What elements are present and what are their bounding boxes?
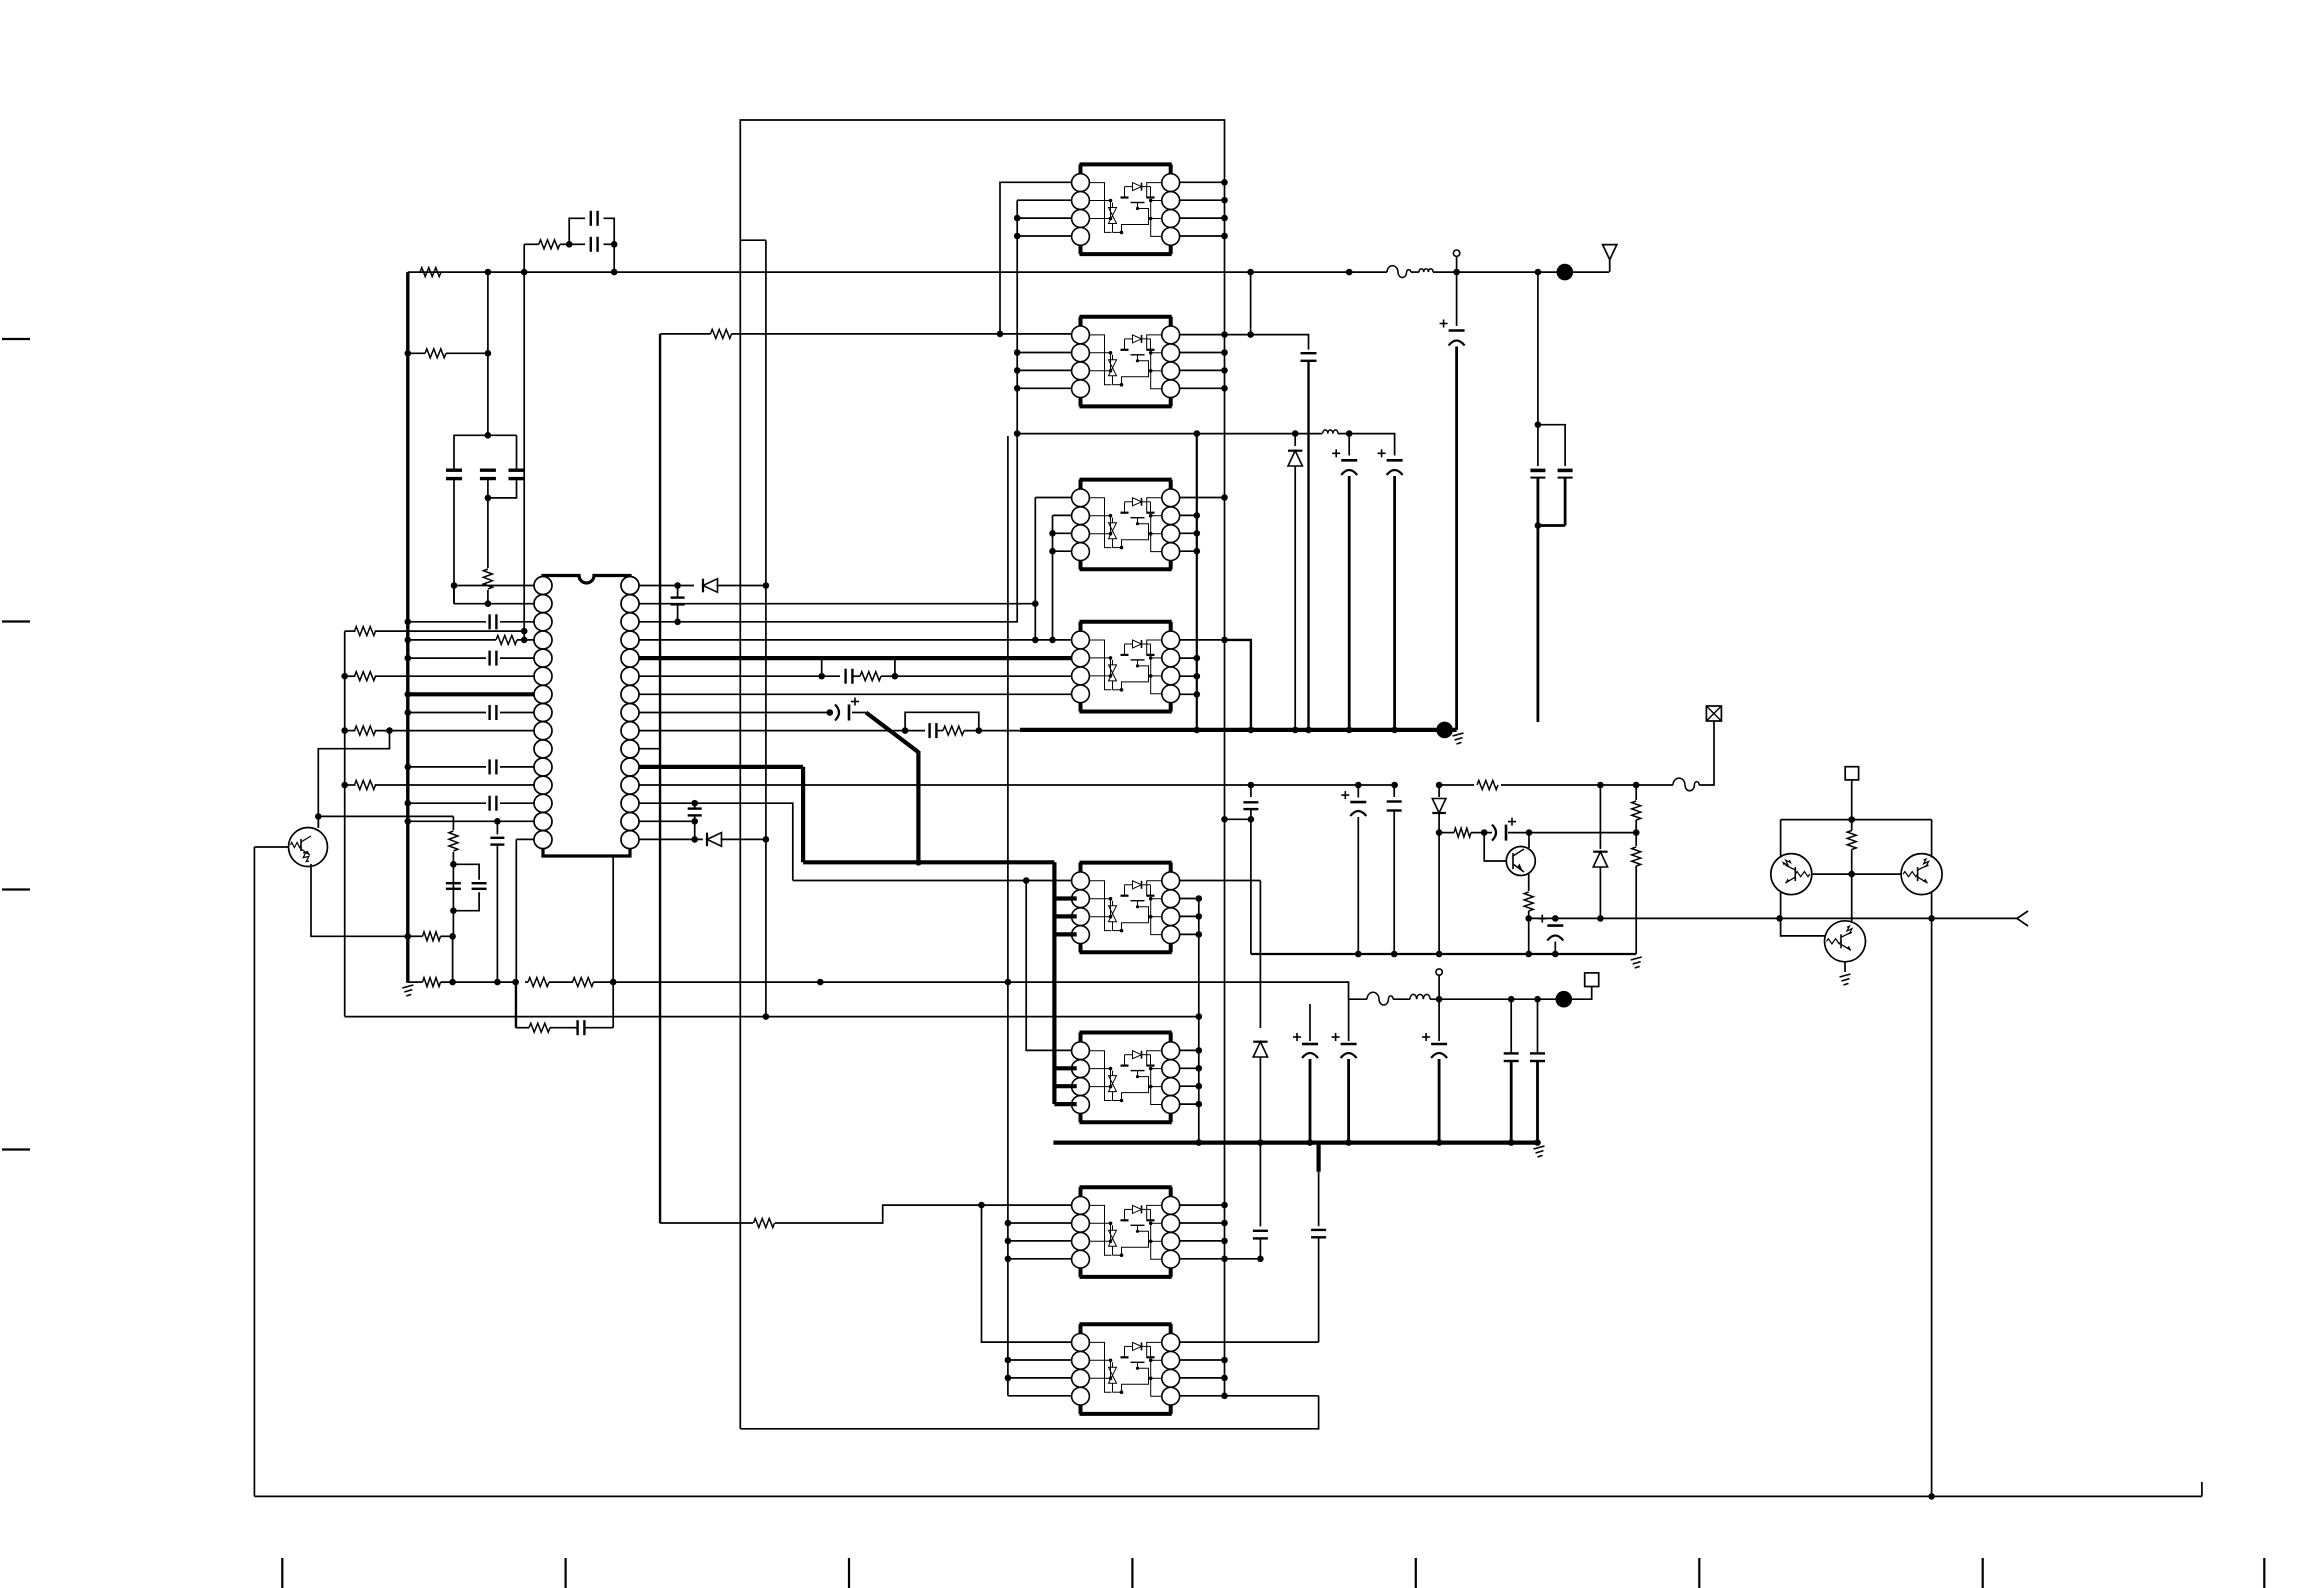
wire: branch x=389.5 to transistor collector row <box>318 731 389 828</box>
wire: Q4 collector stub <box>1851 874 1853 921</box>
bottom edge registration tick 4 <box>1131 1558 1133 1588</box>
wire: branch from C32 to frame edge <box>1225 818 1251 820</box>
wire: link to PC8 input row1 <box>982 1205 1072 1342</box>
photoMOS relay PC5 body <box>1080 861 1172 865</box>
transistor Q1 (digital, with built-in resistors) <box>289 828 328 867</box>
row y=936 with resistor R10 <box>405 933 412 940</box>
transistor Q4 (digital) <box>1825 921 1866 962</box>
IC pin L3 wire with capacitor C6 <box>408 621 486 623</box>
PC5 internal input wiring <box>1089 881 1111 931</box>
wire: Q5 collector <box>1528 833 1530 848</box>
left edge registration tick 2 <box>2 620 30 622</box>
PC7 internal input wiring <box>1089 1205 1111 1255</box>
node dot x=1000 on 334 row <box>997 331 1004 338</box>
bottom edge registration tick 8 <box>2263 1558 2265 1588</box>
IC pin L2 wire <box>454 603 534 605</box>
PC4 internal input wiring <box>1089 640 1111 690</box>
left edge registration tick 4 <box>2 1148 30 1150</box>
wire: y=334 row to PC2 input <box>660 333 710 335</box>
terminal T2 on 999 rail <box>1436 969 1442 975</box>
PC5 internal MOSFET <box>1121 895 1129 897</box>
bold vertical x=1054 feeding PC5/PC6 <box>1052 862 1056 1104</box>
long mid-left horizontal y=1016.6 <box>345 1016 1199 1018</box>
capacitor C2 parallel branch <box>569 218 585 244</box>
vertical x=1198.8 to mid ground bus <box>1198 899 1200 1143</box>
left edge registration tick 1 <box>2 338 30 340</box>
resistor R4 above IC pin 2 <box>483 569 492 589</box>
bias row y=982 with resistor R11 <box>408 981 423 983</box>
PC1 pin circles <box>1072 174 1090 192</box>
IC pin L6 wire with resistor R6 <box>345 675 356 677</box>
inductor L3 on R12 net <box>1673 778 1699 791</box>
PC5 internal output diode <box>1133 881 1142 889</box>
arrowhead of output line <box>2017 911 2028 926</box>
PC8 internal output diode <box>1133 1342 1142 1350</box>
PC4 outputs <box>1180 639 1225 641</box>
wire: collector row to resistor chain <box>318 815 453 817</box>
PC3 pin circles <box>1072 489 1090 507</box>
bottom edge registration tick 1 <box>281 1558 283 1588</box>
IC pin L5 wire with capacitor C7 <box>408 657 486 659</box>
PC1 internal output diode <box>1133 183 1142 191</box>
photoMOS relay PC1 body <box>1080 162 1172 166</box>
photoMOS relay PC6 body <box>1080 1031 1172 1035</box>
electrolytic C23 horizontal <box>1484 832 1492 834</box>
wire: Q1 collector riser <box>317 816 319 828</box>
vertical wire x=524 down to row 631 <box>523 272 525 640</box>
PC6 internal output wiring <box>1147 1051 1162 1066</box>
PC8 output row4 to frame <box>1180 1395 1319 1397</box>
solder point on ground bus <box>1436 722 1453 739</box>
PC3 outputs <box>1180 497 1225 499</box>
PC6 internal output diode <box>1133 1051 1142 1059</box>
bold diagonal link <box>866 713 918 753</box>
RC parallel network below row 982 <box>515 982 517 1028</box>
wire: Q2 collector stub <box>1780 820 1782 858</box>
IC U1 pin circles <box>534 577 552 595</box>
photoMOS relay PC7 body <box>1080 1185 1172 1189</box>
PC3 internal output diode <box>1133 498 1142 506</box>
diode D3 to ground bus <box>1294 434 1296 446</box>
PC2 internal MOSFET <box>1121 349 1129 351</box>
connector J3 (square) top right <box>1845 767 1858 780</box>
electrolytic C33 x=1358 from R12 net <box>1357 785 1359 798</box>
wire: Q1 emitter down <box>311 864 408 936</box>
IC pin L8 wire with capacitor C8 <box>408 712 486 714</box>
PC7 internal zener <box>1109 1230 1117 1238</box>
IC pin R10 stub <box>639 748 660 750</box>
bold horizontal y=862.3 <box>803 860 1054 864</box>
wire: Q4 emitter with ground <box>1844 962 1846 972</box>
wire: L15 branch down <box>515 839 517 1027</box>
PC1 internal MOSFET <box>1121 196 1129 198</box>
IC pin R15 wire with diode D2 <box>639 838 703 840</box>
capacitor C15 under R13 <box>694 803 696 808</box>
bottom edge registration tick 3 <box>848 1558 850 1588</box>
PC3 input row1 wire <box>1035 497 1071 499</box>
electrolytic C17 <box>1348 434 1350 456</box>
photoMOS relay PC2 body <box>1080 315 1172 319</box>
IC U1 body <box>543 576 630 857</box>
PC1 internal zener <box>1109 208 1117 216</box>
resistor R19 below J3 <box>1847 831 1856 850</box>
IC pin R12 wire to motor connector <box>639 784 1395 786</box>
chain to PC8 input: bold stub, capacitor C31 <box>1316 1143 1320 1172</box>
IC pin R11 wire (bold) <box>639 765 803 769</box>
wire: PC4 row1 output to ground bus <box>1225 640 1251 730</box>
wire: Q1 base loop long vertical x=254 <box>253 847 255 1496</box>
bold vertical x=803 <box>801 767 805 862</box>
IC pin L13 wire with capacitor C10 <box>408 802 486 804</box>
vertical x=1250.6 from 272 net to PC2 output row <box>1250 272 1252 335</box>
solder point on 272 net <box>1557 264 1574 281</box>
photoMOS relay PC4 body <box>1080 620 1172 624</box>
top rail of trio <box>1781 819 1932 821</box>
IC pin R9 wire with RC pair to ground bus <box>639 730 925 732</box>
PC7 internal output diode <box>1133 1205 1142 1213</box>
PC8 internal input wiring <box>1089 1342 1111 1392</box>
left bias bus x=407.7 (thick) <box>406 272 409 983</box>
capacitor C21 parallel <box>1538 425 1565 466</box>
wire: C3 bottom down to IC pin L1 region <box>453 479 455 604</box>
IC pin L12 wire with resistor R8 <box>345 784 356 786</box>
IC pin L11 wire with capacitor C9 <box>408 766 486 768</box>
IC pin R6 wire with RC pair <box>639 675 840 677</box>
PC2 outputs to box edge <box>1180 352 1225 354</box>
PC2 pin circles <box>1072 326 1090 344</box>
motor supply rail y=999 with inductors <box>1349 998 1368 1000</box>
mid rail of trio <box>1813 873 1902 875</box>
bottom return wire y=1496 <box>254 1495 2201 1497</box>
diode D4 under R12 net <box>1438 785 1440 797</box>
electrolytic C28 on mid bus <box>1422 1036 1430 1038</box>
IC pin R7 wire to PC4 <box>639 693 1072 695</box>
right end upturn <box>2201 1482 2203 1496</box>
wire: PC5/PC6 input link x=1026 <box>1026 881 1071 1051</box>
resistor R1 on 272 net <box>420 268 441 277</box>
PC7 internal MOSFET <box>1121 1219 1129 1221</box>
RC network above 272 net: riser <box>523 244 525 272</box>
transistor Q3 (digital) <box>1901 854 1942 895</box>
PC5 internal output wiring <box>1147 881 1162 896</box>
ground at mid bus end <box>1534 1146 1545 1157</box>
IC pin R2 wire to PC3 riser <box>639 603 1035 605</box>
IC pin L15 wire <box>516 838 534 840</box>
IC pin L9 wire with resistor R7 <box>345 730 356 732</box>
bottom edge registration tick 2 <box>564 1558 566 1588</box>
PC4 internal output diode <box>1133 640 1142 648</box>
frame wire: main box around driver blocks <box>740 120 1224 1429</box>
vertical x=1197 supply to ground bus <box>1196 434 1198 730</box>
PC8 internal MOSFET <box>1121 1356 1129 1358</box>
capacitor C29 on mid bus <box>1510 1049 1512 1054</box>
bus x=1017 for PC1/PC2 inputs <box>1017 199 1071 201</box>
PC3 internal MOSFET <box>1121 512 1129 514</box>
capacitor C25 under bus <box>1259 1143 1261 1227</box>
resistor R16 to transistor Q5 base node <box>1439 832 1454 834</box>
verticals from 999 area down (electrolytics feed) <box>1309 1004 1311 1041</box>
mid ground bus y=1142.6 (bold) <box>1053 1140 1537 1144</box>
output line y=918 to servo connector <box>1529 917 2017 919</box>
PC5 outputs <box>1180 880 1261 882</box>
vertical wire x=488 from 272 net down to IC pin L2 <box>487 272 489 435</box>
PC6 pin circles <box>1072 1042 1090 1060</box>
resistor R14 on R12 net <box>1477 781 1498 790</box>
capacitor C30 on mid bus <box>1537 1049 1539 1054</box>
PC4 internal zener <box>1109 665 1117 673</box>
PC4 internal MOSFET <box>1121 654 1129 656</box>
PC8 outputs <box>1180 1359 1225 1361</box>
wire: Q1 base to left loop <box>254 846 288 848</box>
inductor L2 on 272 net <box>1411 271 1419 273</box>
IC pin R8 wire with electrolytic C14 and bold link <box>639 712 829 714</box>
PC3 input bus x=1052.5 <box>1052 515 1054 640</box>
left vertical ladder wire x=344.7 <box>344 631 346 1017</box>
resistor R15 on 334 row <box>711 329 732 338</box>
capacitor C13 between R1 and R3 rows <box>677 586 679 598</box>
PC5 internal zener <box>1109 906 1117 914</box>
vertical x=1538 with capacitor pair <box>1537 272 1539 466</box>
electrolytic C19 below 272 net <box>1456 272 1458 326</box>
electrolytic C27 on mid bus <box>1332 1036 1340 1038</box>
long input line to PC7 with resistor R18 <box>659 334 661 1223</box>
transistor Q5 <box>1506 847 1535 876</box>
ground bus y=729.5 (bold) <box>1020 728 1457 732</box>
left edge registration tick 3 <box>2 888 30 890</box>
photoMOS relay PC8 body <box>1080 1322 1172 1326</box>
resistor R9 vertical <box>449 831 458 851</box>
PC5 pin circles <box>1072 872 1090 890</box>
bottom edge registration tick 7 <box>1982 1558 1984 1588</box>
capacitor C3 (cluster left) <box>454 435 517 470</box>
PC2 internal input wiring <box>1089 335 1111 385</box>
PC3 internal output wiring <box>1147 498 1162 513</box>
far-left ladder top row y=631 <box>345 630 356 632</box>
electrolytic C26 on mid bus <box>1293 1036 1301 1038</box>
electrolytic C24 between 918 and 954 <box>1554 918 1556 921</box>
vertical x=766 from box stub down <box>765 240 767 1016</box>
diode D6 on supply <box>1259 881 1261 1029</box>
IC pin R5 wire (bold) to PC4 <box>639 656 1072 660</box>
verticals from 999 rail down to PC6 caps <box>1510 999 1512 1049</box>
capacitor C20 <box>1530 469 1545 473</box>
cap pair joined to bold stub <box>1537 478 1540 526</box>
node dots on 272 net <box>485 269 492 276</box>
IC pin L7 wire (bold) <box>408 692 534 696</box>
resistor R2 <box>524 243 539 245</box>
IC pin L4 wire with resistor R5 <box>408 639 496 641</box>
capacitor C1 <box>569 243 585 245</box>
capacitor C16 on PC2 output net <box>1225 335 1309 350</box>
connector J1 (crossed square) <box>1706 706 1721 721</box>
frame wire: box bottom to block8 output <box>740 1396 1318 1429</box>
PC2 internal output diode <box>1133 335 1142 343</box>
vertical x=660 long signal <box>659 334 661 1223</box>
wire: main horizontal net y=272 to antenna <box>408 271 1387 273</box>
bottom edge registration tick 6 <box>1698 1558 1700 1588</box>
connector J2 (square) <box>1585 973 1599 987</box>
PC6 internal zener <box>1109 1076 1117 1084</box>
wire: Q3 collector stub <box>1931 820 1933 858</box>
diode D5 x=1600 <box>1599 785 1601 849</box>
supply net y=433.6 <box>1017 433 1322 435</box>
capacitor pair C11/C12 on Q1 chain <box>450 861 457 868</box>
IC pin R13 wire <box>639 803 793 880</box>
PC4 pin circles <box>1072 631 1090 649</box>
resistors R12 R13 on row 982 <box>528 978 549 987</box>
ground at x=1636 <box>1631 957 1642 968</box>
wire: J3 stem <box>1851 780 1853 820</box>
wire to connector J2 <box>1564 987 1592 1000</box>
capacitor C5 (cluster right) <box>509 469 525 472</box>
ground at left bus bottom <box>402 985 413 996</box>
electrolytic C18 <box>1378 452 1386 454</box>
PC3 internal input wiring <box>1089 498 1111 548</box>
wire: Q3 emitter to bottom loop <box>1931 891 1933 1496</box>
wire: IC underside vertical x=613 <box>612 856 614 982</box>
PC4 internal output wiring <box>1147 640 1162 655</box>
capacitor C4 (cluster mid) <box>480 469 496 472</box>
PC3 internal zener <box>1109 523 1117 531</box>
resistor chain x=1636 <box>1635 785 1637 800</box>
wire: R13 net to PC5 input row1 <box>793 880 1072 882</box>
PC6 outputs <box>1180 1049 1199 1051</box>
ground symbol at bus end <box>1453 733 1464 744</box>
wire: Q5 emitter with resistor R17 <box>1528 873 1530 891</box>
local ground rail y=954 <box>1251 953 1636 955</box>
wire: PC2 output row1 to box edge <box>1180 334 1225 336</box>
bottom edge registration tick 5 <box>1415 1558 1417 1588</box>
PC2 internal output wiring <box>1147 335 1162 350</box>
PC8 pin circles <box>1072 1334 1090 1352</box>
IC pin R14 wire <box>639 820 695 822</box>
wire: riser x=1000 to PC1 input row1 <box>1000 182 1072 334</box>
PC7 pin circles <box>1072 1197 1090 1215</box>
PC8 internal output wiring <box>1147 1342 1162 1357</box>
transistor Q2 (digital) <box>1771 854 1812 895</box>
capacitor C22 under R12 net <box>1393 785 1395 797</box>
terminal T1 on 272 net <box>1453 250 1459 256</box>
PC2 internal zener <box>1109 360 1117 368</box>
wire: Q2/Q4 base link <box>1781 918 1825 936</box>
wire: stub from box to R1 diode vertical <box>740 239 766 241</box>
IC pin L14 wire <box>408 820 534 822</box>
PC1 outputs to box edge <box>1180 181 1225 183</box>
antenna symbol <box>1609 260 1611 273</box>
IC pin L1 wire <box>454 585 534 587</box>
IC pin R1 wire with diode D1 <box>639 585 694 587</box>
PC1 internal input wiring <box>1089 183 1111 233</box>
photoMOS relay PC3 body <box>1080 478 1172 482</box>
resistor R3 row y=353 <box>408 352 425 354</box>
PC7 internal output wiring <box>1147 1205 1162 1220</box>
PC1 internal output wiring <box>1147 183 1162 198</box>
riser x=1035 to PC3 input <box>1034 498 1036 640</box>
wire: Q2 emitter stub <box>1780 891 1782 918</box>
IC pin R3 wire to upper block bus <box>639 200 1017 622</box>
wire: Q5 base <box>1484 833 1506 861</box>
PC8 internal zener <box>1109 1367 1117 1375</box>
capacitor C34 chain from L14 down to bias row <box>496 821 498 834</box>
solder point on 999 rail <box>1556 991 1573 1008</box>
input bus x=1007.5 for PC7/PC8 <box>1007 436 1009 1396</box>
IC pin R4 wire to PC4 <box>639 639 1072 641</box>
PC6 internal MOSFET <box>1121 1064 1129 1066</box>
PC6 internal input wiring <box>1089 1051 1111 1101</box>
PC7 outputs <box>1180 1204 1225 1206</box>
capacitor C32 chain x=1251 from R12 net <box>1250 785 1252 797</box>
